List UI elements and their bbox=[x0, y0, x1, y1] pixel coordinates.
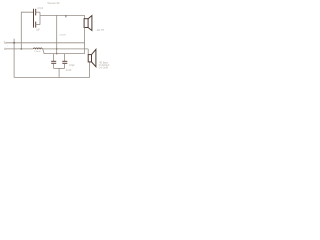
capacitor C1a left plate rail bbox=[33, 9, 35, 28]
wire shunt riser bbox=[56, 15, 58, 53]
wire tweeter feed bbox=[40, 14, 85, 16]
wire A upper input bbox=[6, 42, 85, 44]
wire woofer top lead bbox=[87, 49, 89, 55]
node dot riser on wire A bbox=[13, 42, 15, 44]
wire tweeter return bbox=[84, 28, 86, 54]
capacitor C1a right plate bbox=[35, 9, 37, 16]
wire bottom rail bbox=[14, 62, 89, 78]
svg-text:2x10: 2x10 bbox=[66, 69, 72, 72]
wire hook inductor output down bbox=[42, 49, 44, 53]
node dot shunt rail bbox=[56, 53, 58, 55]
svg-text:L=1,5mH: L=1,5mH bbox=[99, 68, 109, 70]
svg-text:4Ω HT: 4Ω HT bbox=[97, 29, 105, 32]
terminal input plus bbox=[4, 42, 6, 44]
terminal input minus bbox=[4, 48, 6, 50]
inductor L1 bbox=[33, 48, 42, 49]
wire shunt rail bbox=[44, 53, 85, 55]
node junction dot lower input wire bbox=[20, 48, 22, 50]
wire C1a lead bbox=[36, 11, 40, 13]
capacitor C1b right plate bbox=[35, 22, 37, 28]
node dot riser on wire B bbox=[56, 48, 57, 49]
wire input riser horizontal to cap bank bbox=[21, 12, 33, 49]
svg-text:Tweeter 4Ω: Tweeter 4Ω bbox=[47, 2, 59, 5]
wire tweeter down lead bbox=[84, 15, 86, 18]
capacitor C2b bbox=[62, 54, 67, 69]
svg-text:1µF: 1µF bbox=[36, 30, 41, 32]
svg-text:0,5mH: 0,5mH bbox=[59, 34, 66, 36]
svg-text:−: − bbox=[7, 44, 9, 47]
wire B lower input right bbox=[42, 48, 88, 50]
wire center drop bbox=[58, 68, 60, 77]
wire ground riser left bbox=[13, 39, 15, 78]
svg-text:1,5mH: 1,5mH bbox=[34, 51, 41, 53]
wire cap bank right rail bbox=[39, 12, 41, 24]
svg-text:+: + bbox=[3, 40, 5, 43]
wire B lower input left bbox=[6, 48, 33, 50]
wire caps bottom rail bbox=[54, 67, 65, 69]
svg-text:4,7µF: 4,7µF bbox=[37, 8, 44, 10]
svg-text:10µF: 10µF bbox=[69, 65, 75, 67]
speaker LS1 tweeter bbox=[84, 16, 92, 31]
capacitor C2a bbox=[51, 54, 56, 69]
node stub on tweeter wire bbox=[65, 15, 67, 17]
speaker LS2 woofer bbox=[88, 49, 96, 66]
wire C1b lead bbox=[36, 24, 40, 26]
